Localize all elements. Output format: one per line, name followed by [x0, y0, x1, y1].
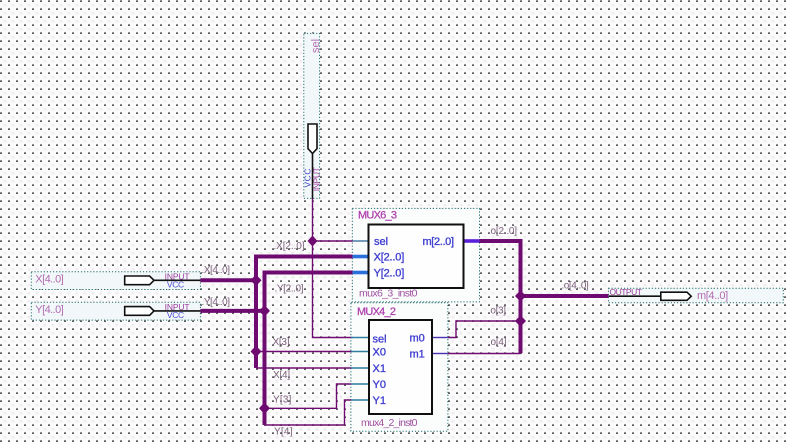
svg-text:Y[4..0]: Y[4..0]	[35, 304, 64, 316]
svg-text:.Y[4..0]: .Y[4..0]	[202, 297, 231, 308]
svg-text:X1: X1	[373, 363, 386, 375]
stub X[2..0] of MUX6_3	[353, 255, 369, 259]
stub Y1 of MUX4_2	[351, 399, 369, 401]
wire m1 to o[4] bus end	[448, 353, 521, 355]
wire sel branch to MUX6_3	[313, 240, 353, 242]
svg-text:sel: sel	[310, 39, 322, 53]
svg-text:X0: X0	[373, 347, 386, 359]
pin symbol flag m	[661, 292, 691, 300]
svg-text:Y1: Y1	[373, 395, 386, 407]
wire bus o[4..0] to output pin	[521, 294, 609, 298]
svg-text:X[4]: X[4]	[273, 370, 290, 381]
node sel junction	[308, 236, 318, 247]
pin lead X	[154, 279, 200, 281]
svg-text:X[3]: X[3]	[273, 337, 290, 348]
wire bus X riser vertical with branch to X[2..0]	[256, 257, 353, 369]
wire bus o[2..0] from m[2..0] to vertical collector	[480, 241, 521, 353]
svg-text:m1: m1	[410, 349, 425, 361]
svg-text:Y[4]: Y[4]	[274, 427, 293, 438]
symbol body MUX6_3	[369, 225, 464, 289]
wire sel vertical from pin down and branch to MUX6_3 sel	[313, 199, 353, 338]
wire Y[3] to Y0	[265, 384, 352, 408]
node o[3] junction	[515, 315, 526, 327]
svg-text:mux4_2_inst0: mux4_2_inst0	[361, 417, 418, 429]
svg-text:.o[4..0]: .o[4..0]	[562, 280, 590, 291]
svg-text:Y[3]: Y[3]	[273, 394, 292, 405]
svg-text:VCC: VCC	[167, 310, 184, 320]
svg-text:MUX4_2: MUX4_2	[357, 306, 396, 318]
svg-text:.X[2..0]: .X[2..0]	[274, 241, 305, 252]
svg-text:.o[2..0]: .o[2..0]	[488, 226, 517, 237]
selection box of pin Y[4..0]	[31, 302, 200, 320]
svg-text:mux6_3_inst0: mux6_3_inst0	[359, 288, 418, 300]
wire X[3] to X0	[256, 351, 352, 353]
stub m1 of MUX4_2	[432, 353, 448, 355]
wire bus Y riser vertical with branch to Y[2..0]	[265, 273, 353, 426]
svg-text:Y0: Y0	[373, 379, 386, 391]
selection box of pin X[4..0]	[31, 272, 200, 290]
svg-text:VCC: VCC	[167, 280, 184, 290]
stub Y0 of MUX4_2	[351, 383, 369, 385]
svg-text:m[4..0]: m[4..0]	[697, 290, 728, 302]
svg-text:INPUT: INPUT	[312, 167, 322, 191]
node Y[3] junction	[259, 403, 270, 415]
selection box of pin sel	[304, 33, 320, 198]
node X bus junction	[251, 275, 262, 287]
svg-text:sel: sel	[374, 236, 388, 248]
svg-text:m[2..0]: m[2..0]	[423, 236, 455, 248]
wire m0 to o[3] junction	[448, 321, 521, 338]
stub Y[2..0] of MUX6_3	[353, 271, 369, 275]
svg-text:.o[3]: .o[3]	[488, 305, 506, 316]
node Y bus junction	[259, 305, 270, 317]
pin lead sel	[312, 154, 314, 199]
pin symbol flag Y	[125, 307, 154, 316]
svg-text:Y[2..0]: Y[2..0]	[374, 268, 405, 280]
svg-text:sel: sel	[373, 334, 387, 346]
selection box of symbol MUX6_3	[352, 208, 479, 302]
wire X[4] to X1	[256, 367, 352, 369]
svg-text:X[4..0]: X[4..0]	[35, 274, 64, 286]
wire bus X[4..0] from input pin to riser	[200, 278, 256, 282]
node o[4..0] junction	[515, 290, 526, 302]
pin symbol flag sel	[308, 124, 317, 154]
svg-text:.o[4]: .o[4]	[488, 337, 507, 348]
pin lead m	[609, 295, 661, 297]
pin lead Y	[154, 310, 200, 312]
selection box of pin m[4..0]	[608, 288, 783, 303]
svg-text:MUX6_3: MUX6_3	[358, 210, 397, 222]
stub m[2..0] of MUX6_3	[464, 239, 480, 243]
pin symbol flag X	[125, 276, 154, 285]
svg-text:.X[4..0]: .X[4..0]	[202, 265, 231, 276]
stub sel of MUX6_3	[353, 240, 369, 242]
svg-text:X[2..0]: X[2..0]	[374, 252, 405, 264]
stub sel of MUX4_2	[351, 337, 369, 339]
wire bus Y[4..0] from input pin to riser	[200, 309, 264, 313]
svg-text:.Y[2..0]: .Y[2..0]	[275, 284, 304, 295]
stub X0 of MUX4_2	[351, 351, 369, 353]
wire Y[4] to Y1	[265, 400, 352, 425]
stub m0 of MUX4_2	[432, 337, 448, 339]
node X[3] junction	[251, 346, 262, 358]
svg-text:m0: m0	[410, 333, 425, 345]
symbol body MUX4_2	[369, 320, 432, 414]
stub X1 of MUX4_2	[351, 367, 369, 369]
selection box of symbol MUX4_2	[351, 303, 448, 432]
